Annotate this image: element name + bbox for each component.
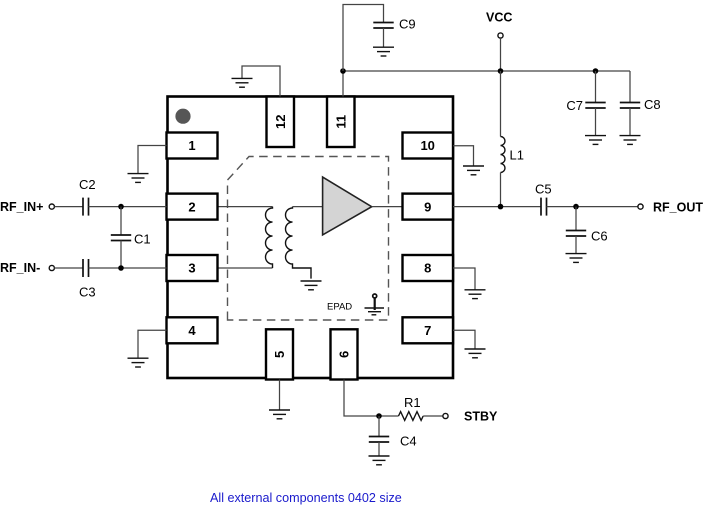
wire pin 4 to ground: [138, 330, 167, 358]
svg-text:7: 7: [424, 323, 431, 338]
wire C3 to pin 3: [89, 267, 167, 269]
capacitor C8: [620, 71, 640, 136]
wire C2 to pin 2: [89, 206, 167, 208]
svg-text:12: 12: [273, 115, 288, 129]
wire pin 10 to ground: [453, 146, 474, 166]
ground C7: [585, 136, 606, 145]
wire pin 6 to R1: [344, 380, 399, 417]
svg-text:RF_OUT: RF_OUT: [653, 201, 703, 215]
svg-text:11: 11: [333, 115, 348, 129]
svg-text:RF_IN-: RF_IN-: [0, 261, 40, 275]
wire pin 7 to ground: [453, 330, 475, 349]
capacitor C1: [111, 207, 131, 268]
node VCC/L1 junction: [498, 68, 504, 74]
ground C6: [566, 254, 587, 263]
terminal VCC: [498, 33, 503, 38]
wire secondary coil to amplifier: [293, 206, 323, 208]
ground C8: [620, 136, 641, 145]
svg-text:9: 9: [424, 199, 431, 214]
wire pin2 to primary coil: [218, 206, 273, 208]
balun secondary coil: [286, 207, 311, 279]
svg-text:RF_IN+: RF_IN+: [0, 200, 43, 214]
ground pin 1: [128, 174, 149, 183]
ground pin 12: [232, 78, 253, 87]
pin 6: [331, 329, 358, 379]
ground C4: [369, 456, 390, 465]
wire pin 8 to ground: [453, 268, 475, 290]
pin 1: [167, 133, 218, 159]
svg-text:5: 5: [272, 351, 287, 358]
wire pin3 to primary coil: [218, 267, 273, 269]
svg-text:VCC: VCC: [486, 11, 512, 25]
amplifier triangle: [323, 177, 372, 235]
node C3/C1 junction: [118, 265, 124, 271]
pin 10: [403, 133, 454, 159]
ground pin 5: [269, 410, 290, 419]
terminal STBY: [443, 413, 448, 418]
svg-text:8: 8: [424, 261, 431, 276]
svg-text:C5: C5: [535, 182, 552, 197]
svg-text:C1: C1: [134, 232, 151, 247]
svg-text:C8: C8: [644, 97, 661, 112]
ground C9: [373, 47, 394, 56]
pin 5: [266, 329, 293, 379]
svg-text:1: 1: [188, 138, 195, 153]
dashed internal boundary: [228, 157, 389, 321]
svg-text:C4: C4: [400, 434, 417, 449]
terminal RF_IN-: [49, 265, 54, 270]
pin 2: [167, 194, 218, 220]
svg-text:6: 6: [337, 351, 352, 358]
wire C5 to RF_OUT: [547, 206, 638, 208]
capacitor C2: [83, 198, 89, 216]
pin 12: [267, 97, 295, 148]
wire VCC to rail: [500, 38, 502, 71]
svg-text:10: 10: [420, 138, 434, 153]
ground pin 4: [128, 358, 149, 367]
pin 9: [403, 194, 454, 220]
svg-text:3: 3: [188, 261, 195, 276]
pin 11: [327, 97, 355, 148]
svg-text:2: 2: [188, 199, 195, 214]
capacitor C6: [566, 207, 586, 254]
pin 1 indicator dot: [175, 109, 190, 124]
pin 7: [403, 317, 454, 343]
wire RF_IN+ to C2: [54, 206, 83, 208]
svg-text:C3: C3: [79, 285, 96, 300]
node pin11/C9 junction: [340, 68, 346, 74]
capacitor C7: [585, 71, 605, 136]
capacitor C3: [83, 259, 89, 277]
inductor L1: [501, 71, 506, 207]
svg-text:4: 4: [188, 323, 196, 338]
IC body U1: [168, 97, 454, 379]
svg-text:L1: L1: [510, 148, 524, 163]
pin 3: [167, 255, 218, 281]
wire pin 5 to ground: [279, 380, 281, 411]
ground secondary coil: [301, 281, 322, 290]
svg-text:C2: C2: [79, 177, 96, 192]
wire pin 12 to ground: [242, 66, 280, 97]
pin 8: [403, 255, 454, 281]
capacitor C5: [541, 198, 547, 216]
wire C9 branch: [343, 5, 384, 72]
svg-text:EPAD: EPAD: [327, 302, 352, 313]
wire pin 11 to VCC rail: [342, 71, 344, 97]
node C7 junction: [593, 68, 599, 74]
wire amplifier output to pin 9: [372, 206, 403, 208]
svg-text:C6: C6: [591, 229, 608, 244]
wire pin 9 to C5: [453, 206, 541, 208]
ground pin 7: [465, 349, 486, 358]
VCC rail wire: [343, 70, 630, 72]
capacitor C4: [369, 416, 389, 456]
pin 4: [167, 317, 218, 343]
svg-text:C7: C7: [566, 98, 583, 113]
node C4/R1 junction: [376, 413, 382, 419]
wire RF_IN- to C3: [54, 267, 83, 269]
ground pin 10: [463, 166, 484, 175]
terminal RF_OUT: [638, 204, 643, 209]
svg-text:R1: R1: [404, 395, 421, 410]
capacitor C9: [373, 23, 393, 48]
terminal RF_IN+: [49, 204, 54, 209]
wire R1 to STBY: [423, 415, 443, 417]
balun primary coil: [266, 207, 273, 268]
svg-text:All external components 0402 s: All external components 0402 size: [210, 491, 402, 505]
EPAD ground: [365, 294, 385, 315]
wire pin 1 to ground: [138, 146, 167, 174]
node C6 junction: [573, 204, 579, 210]
ground pin 8: [465, 290, 486, 299]
resistor R1: [399, 412, 424, 421]
svg-text:C9: C9: [399, 16, 416, 31]
svg-text:STBY: STBY: [464, 409, 498, 423]
node L1/RF junction: [498, 204, 504, 210]
node C2/C1 junction: [118, 204, 124, 210]
